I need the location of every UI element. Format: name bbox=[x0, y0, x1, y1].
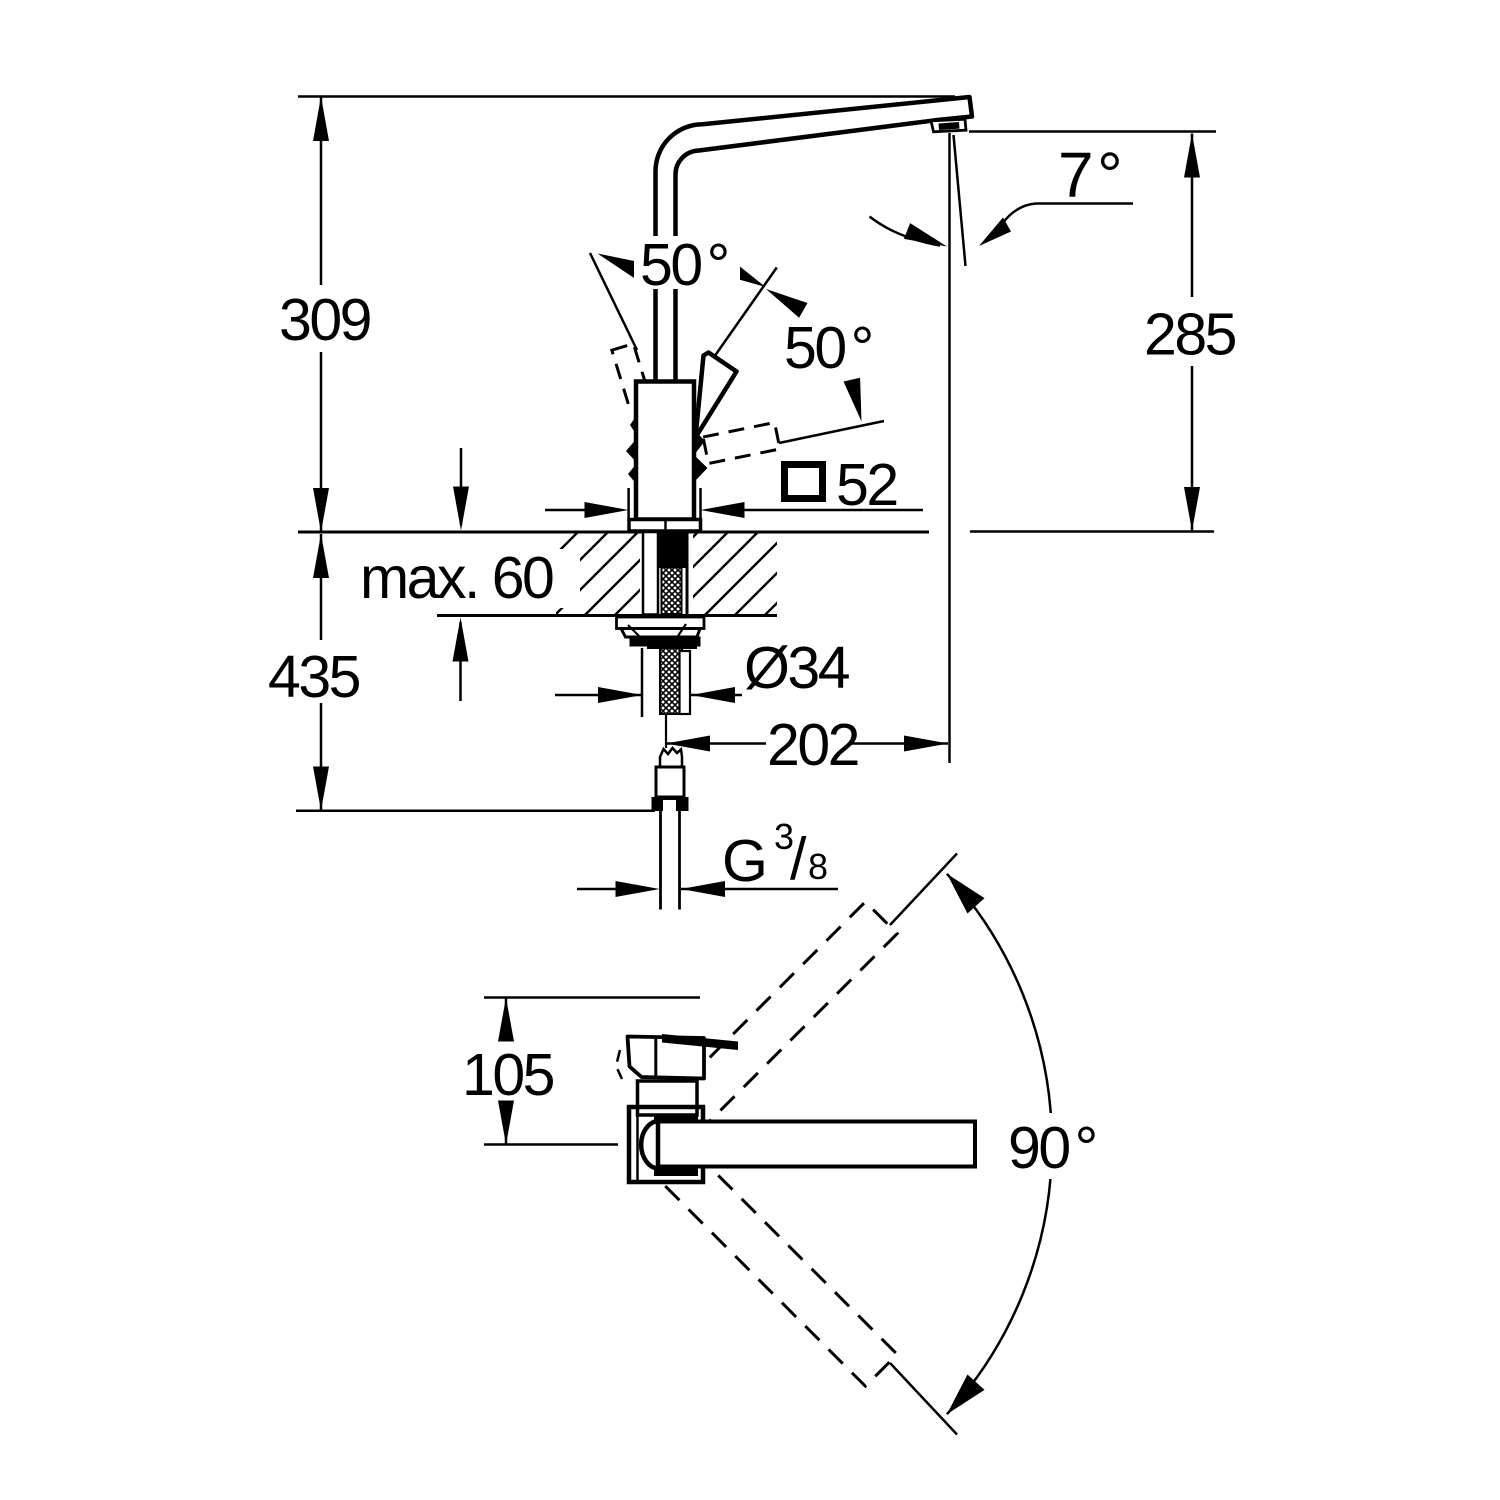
svg-text:/: / bbox=[790, 826, 807, 892]
svg-text:7°: 7° bbox=[1058, 139, 1120, 211]
svg-text:8: 8 bbox=[808, 846, 828, 887]
svg-text:Ø34: Ø34 bbox=[744, 635, 850, 701]
svg-text:285: 285 bbox=[1144, 302, 1236, 368]
svg-text:309: 309 bbox=[279, 287, 371, 353]
svg-text:202: 202 bbox=[767, 712, 858, 778]
svg-text:max. 60: max. 60 bbox=[360, 545, 553, 611]
svg-text:50°: 50° bbox=[784, 315, 872, 381]
svg-text:435: 435 bbox=[268, 644, 360, 710]
svg-text:52: 52 bbox=[836, 452, 897, 518]
svg-text:50°: 50° bbox=[640, 232, 728, 298]
svg-text:90°: 90° bbox=[1008, 1115, 1096, 1181]
svg-text:105: 105 bbox=[462, 1042, 554, 1108]
svg-text:G: G bbox=[722, 828, 765, 894]
